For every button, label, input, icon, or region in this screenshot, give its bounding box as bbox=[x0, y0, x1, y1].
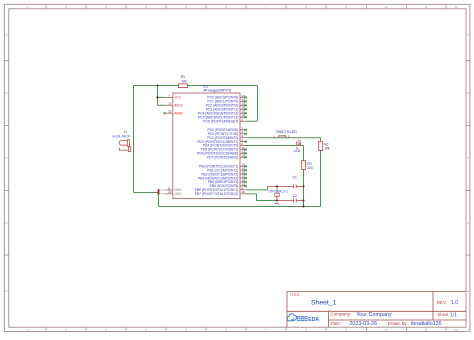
wire XTAL1 net PB6 bbox=[247, 186, 304, 190]
connector J1 ALIM JACK bbox=[112, 130, 130, 152]
junction node crystal top bbox=[276, 185, 278, 187]
svg-text:D: D bbox=[467, 221, 470, 225]
svg-text:12: 12 bbox=[454, 328, 458, 332]
resistor R2 10k bbox=[319, 141, 330, 150]
svg-text:3: 3 bbox=[105, 5, 107, 9]
switch S1 SWICTH-LED bbox=[274, 130, 298, 138]
svg-text:11: 11 bbox=[424, 328, 427, 332]
wire VCC branch to chip VCC/AVCC bbox=[158, 86, 166, 106]
svg-text:C: C bbox=[467, 156, 470, 160]
junction node crystal bottom bbox=[276, 199, 278, 201]
svg-text:12: 12 bbox=[454, 5, 458, 9]
svg-text:D: D bbox=[5, 221, 8, 225]
svg-text:SWICTH-LED: SWICTH-LED bbox=[276, 130, 297, 134]
svg-text:21: 21 bbox=[168, 110, 172, 114]
title block bbox=[287, 292, 466, 328]
LED D1 bbox=[294, 140, 301, 153]
svg-text:20: 20 bbox=[168, 102, 172, 106]
svg-text:AVCC: AVCC bbox=[174, 104, 184, 108]
chip right-side pins PC0-PC6 bbox=[198, 94, 247, 124]
svg-text:EDA: EDA bbox=[308, 317, 319, 323]
resistor R1 10k bbox=[179, 75, 188, 88]
svg-text:Company:: Company: bbox=[330, 312, 351, 317]
svg-text:B: B bbox=[5, 91, 7, 95]
svg-text:ALIM JACK: ALIM JACK bbox=[112, 135, 130, 139]
svg-text:ATmega328P-PU: ATmega328P-PU bbox=[204, 88, 232, 92]
wire VCC top net (jack + to R1 to PC6) bbox=[134, 86, 258, 193]
wire R3 to ground vertical bbox=[303, 169, 305, 206]
svg-text:PB7 (PCINT7/XTAL2/TOSC2): PB7 (PCINT7/XTAL2/TOSC2) bbox=[195, 192, 239, 196]
svg-text:13: 13 bbox=[242, 154, 246, 158]
svg-text:2: 2 bbox=[65, 5, 67, 9]
svg-text:GND: GND bbox=[174, 192, 182, 196]
junction node R3/C1 bbox=[302, 185, 304, 187]
wire GND from jack to chip GND pins bbox=[134, 189, 166, 206]
crystal X1 CRYSTALS-1 bbox=[268, 186, 288, 203]
svg-text:PC6 (PCINT14/RESET): PC6 (PCINT14/RESET) bbox=[203, 119, 238, 123]
svg-text:1.0: 1.0 bbox=[451, 300, 458, 306]
svg-text:7: 7 bbox=[265, 5, 267, 9]
junction node bus bbox=[302, 205, 304, 207]
svg-text:Sheet_1: Sheet_1 bbox=[311, 299, 337, 306]
no-connect AREF bbox=[163, 112, 165, 114]
svg-text:TITLE:: TITLE: bbox=[290, 293, 301, 297]
junction node VCC/R1 bbox=[156, 84, 158, 86]
svg-text:Your Company: Your Company bbox=[356, 312, 392, 318]
svg-text:4: 4 bbox=[145, 5, 147, 9]
svg-text:LED: LED bbox=[294, 149, 301, 153]
svg-text:R1: R1 bbox=[181, 75, 185, 79]
svg-text:5: 5 bbox=[185, 5, 187, 9]
svg-text:Date:: Date: bbox=[331, 321, 342, 326]
svg-text:10k: 10k bbox=[324, 147, 330, 151]
svg-text:2023-03-26: 2023-03-26 bbox=[349, 321, 377, 327]
svg-text:ibradiallo126: ibradiallo126 bbox=[411, 321, 442, 327]
svg-text:A: A bbox=[5, 33, 7, 37]
resistor R3 220 bbox=[302, 161, 313, 170]
wire LED net PD4 bbox=[247, 146, 304, 161]
wire GND bottom bus bbox=[159, 151, 321, 207]
chip left-side pins VCC AVCC AREF GND GND bbox=[166, 94, 184, 196]
svg-text:PD7 (PCINT23/AIN1): PD7 (PCINT23/AIN1) bbox=[207, 155, 238, 159]
wire XTAL2 net PB7 bbox=[247, 194, 304, 201]
junction node R3/C2 bbox=[302, 199, 304, 201]
svg-text:11: 11 bbox=[424, 5, 427, 9]
svg-text:J1: J1 bbox=[124, 130, 128, 134]
svg-text:AREF: AREF bbox=[174, 111, 183, 115]
svg-text:10: 10 bbox=[384, 328, 388, 332]
svg-text:C2: C2 bbox=[293, 194, 297, 198]
svg-text:VCC: VCC bbox=[174, 96, 182, 100]
svg-text:CRYSTALS-1: CRYSTALS-1 bbox=[268, 189, 288, 193]
svg-text:10k: 10k bbox=[182, 79, 188, 83]
JLC EDA logo bbox=[287, 314, 319, 323]
capacitor C1 bbox=[293, 176, 297, 189]
svg-text:C1: C1 bbox=[293, 176, 297, 180]
svg-text:10: 10 bbox=[384, 5, 388, 9]
junction node VCC pin bbox=[156, 96, 158, 98]
svg-text:1: 1 bbox=[27, 5, 29, 9]
svg-text:220: 220 bbox=[307, 166, 313, 170]
svg-text:B: B bbox=[467, 91, 469, 95]
svg-text:REV:: REV: bbox=[437, 300, 447, 305]
svg-text:10: 10 bbox=[242, 190, 246, 194]
svg-text:Sheet:: Sheet: bbox=[438, 312, 450, 317]
svg-text:A: A bbox=[467, 33, 469, 37]
svg-text:C: C bbox=[5, 156, 8, 160]
svg-text:E: E bbox=[5, 289, 7, 293]
microcontroller U1 ATmega328P-PU bbox=[173, 84, 240, 198]
svg-text:1/1: 1/1 bbox=[450, 312, 457, 318]
chip right-side pins PD0-PD7 bbox=[197, 126, 247, 159]
wire switch net PD2 bbox=[247, 138, 321, 142]
chip right-side pins PB0-PB7 bbox=[195, 163, 247, 196]
svg-text:Drawn By:: Drawn By: bbox=[388, 321, 408, 326]
svg-text:9: 9 bbox=[345, 5, 347, 9]
svg-text:6: 6 bbox=[225, 5, 227, 9]
svg-text:E: E bbox=[467, 289, 469, 293]
svg-text:22: 22 bbox=[168, 190, 172, 194]
svg-text:8: 8 bbox=[305, 5, 307, 9]
capacitor C2 bbox=[293, 194, 297, 203]
